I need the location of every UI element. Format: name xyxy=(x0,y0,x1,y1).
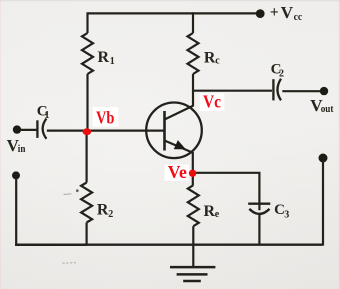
capacitor C3 xyxy=(248,204,270,214)
wire R2 to bottom rail xyxy=(85,223,87,246)
terminal Vout dot xyxy=(320,87,328,95)
wire emitter down to node Ve xyxy=(192,152,194,174)
label C1 xyxy=(37,103,50,120)
svg-text:1: 1 xyxy=(45,110,50,121)
svg-text:R: R xyxy=(97,202,109,219)
label Vb xyxy=(93,107,119,127)
wire top supply rail xyxy=(88,12,258,14)
scan edge tint left xyxy=(0,0,1,289)
capacitor C1 xyxy=(37,119,46,139)
resistor R1 xyxy=(82,33,93,74)
wire C3 to bottom rail xyxy=(258,214,260,245)
wire Vin to C1 xyxy=(20,129,37,131)
wire bottom rail xyxy=(15,243,322,245)
svg-text:e: e xyxy=(215,209,220,220)
svg-text:R: R xyxy=(98,49,110,66)
label Rc xyxy=(204,50,220,67)
svg-text:V: V xyxy=(281,3,294,22)
svg-text:in: in xyxy=(18,144,26,155)
stray scan mark left of R2 xyxy=(64,193,72,196)
wire C2 to Vout xyxy=(282,90,320,92)
wire Rc branch top xyxy=(192,12,194,33)
svg-text:out: out xyxy=(321,104,334,115)
capacitor C2 xyxy=(273,79,281,101)
svg-text:2: 2 xyxy=(279,69,284,80)
stray scan mark below bottom rail xyxy=(63,262,77,265)
label Vout xyxy=(310,96,334,115)
label R1 xyxy=(98,49,115,67)
svg-text:R: R xyxy=(204,50,216,67)
transistor Q1 collector stroke xyxy=(165,106,194,120)
resistor Rc xyxy=(188,33,199,74)
wire Re to bottom rail and ground stem xyxy=(192,226,194,266)
transistor Q1 circle xyxy=(146,103,202,159)
power terminal +Vcc dot xyxy=(256,9,265,18)
svg-text:c: c xyxy=(215,56,220,67)
wire R1 bottom to node Vb xyxy=(86,74,88,131)
svg-text:2: 2 xyxy=(108,209,113,220)
label Ve xyxy=(165,162,190,182)
label Re xyxy=(204,203,220,220)
terminal Vin dot xyxy=(13,125,21,133)
scan edge tint right xyxy=(339,0,340,289)
wire lower-right terminal to bottom rail xyxy=(322,160,324,246)
terminal lower-left dot xyxy=(12,171,20,179)
svg-text:3: 3 xyxy=(284,210,289,221)
terminal lower-right dot xyxy=(319,154,328,163)
resistor R2 xyxy=(81,183,92,223)
transistor Q1 emitter arrow xyxy=(175,141,185,149)
svg-text:1: 1 xyxy=(110,56,115,67)
wire C1 to base (through node Vb) xyxy=(47,130,165,132)
label Vin xyxy=(7,136,26,155)
ground symbol xyxy=(170,267,215,281)
label C3 xyxy=(274,202,289,221)
svg-text:+: + xyxy=(270,4,279,21)
transistor Q1 emitter stroke xyxy=(165,141,193,153)
node Ve red dot xyxy=(189,170,196,177)
label R2 xyxy=(97,202,113,221)
wire Rc bottom to collector junction xyxy=(192,74,194,107)
svg-text:Ve: Ve xyxy=(168,162,187,182)
svg-text:R: R xyxy=(204,203,216,220)
wire node Vb down to R2 xyxy=(85,131,87,183)
svg-text:cc: cc xyxy=(294,12,303,23)
stray scan speck near R2 xyxy=(76,189,79,192)
power label + Vcc xyxy=(270,3,303,23)
svg-text:Vc: Vc xyxy=(203,91,221,111)
wire Ve to C3 branch xyxy=(193,173,260,210)
transistor Q1 base bar xyxy=(163,111,166,151)
node Vc label xyxy=(200,91,225,111)
wire Ve down to Re xyxy=(192,174,195,185)
scan edge shade top xyxy=(0,0,340,1)
node Vb red dot xyxy=(83,128,92,135)
wire lower-left terminal to bottom rail xyxy=(16,178,87,245)
wire R1 branch top xyxy=(86,12,88,33)
resistor Re xyxy=(188,185,199,226)
svg-text:Vb: Vb xyxy=(96,108,115,128)
wire collector to C2 xyxy=(193,90,272,92)
label C2 xyxy=(271,62,284,80)
